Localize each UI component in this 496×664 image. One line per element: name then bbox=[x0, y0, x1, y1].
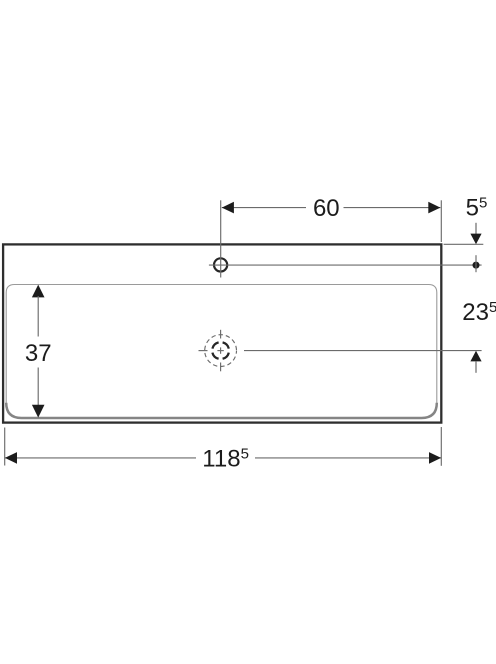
dimension 118.5 right extension line bbox=[440, 427, 442, 466]
dimension 60 line left segment bbox=[222, 207, 306, 209]
dimension 37 line lower segment bbox=[37, 368, 39, 407]
drain ring arc NW bbox=[212, 342, 218, 348]
dimension 118.5 left arrow bbox=[5, 452, 17, 464]
dimension 23.5 arrow shaft bbox=[475, 361, 477, 373]
drain vertical centerline lower dash bbox=[220, 363, 222, 372]
svg-text:1185: 1185 bbox=[202, 446, 249, 473]
basin interior rounded rectangle bbox=[6, 285, 437, 419]
dot vertical tick bbox=[475, 255, 477, 272]
drain center cross vertical bbox=[220, 347, 222, 353]
dimension 118.5 line left segment bbox=[5, 457, 196, 459]
dimension 60 left arrow bbox=[222, 202, 234, 214]
dimension 37 up arrow bbox=[32, 285, 45, 298]
drain ring arc SW bbox=[212, 353, 218, 359]
faucet hole vertical centerline / extension of 60 dim bbox=[220, 200, 222, 277]
dimension 118.5 right arrow bbox=[429, 452, 441, 464]
drain ring arc SE bbox=[223, 353, 229, 359]
dimension 5.5 down arrow bbox=[470, 234, 481, 245]
dimension 60 right extension line above basin corner bbox=[440, 200, 442, 242]
svg-text:37: 37 bbox=[25, 340, 52, 367]
dimension terminator dot on faucet centerline bbox=[473, 262, 480, 269]
svg-text:60: 60 bbox=[313, 195, 340, 222]
drain center cross horizontal bbox=[217, 350, 223, 352]
drain dashed circle bbox=[205, 335, 237, 367]
svg-text:55: 55 bbox=[466, 194, 488, 221]
dimension 118.5 line right segment bbox=[255, 457, 441, 459]
basin interior bottom thick edge bbox=[6, 403, 437, 418]
dimension 5.5 extension line at rim top level bbox=[444, 243, 484, 245]
dimension 37 line upper segment bbox=[37, 296, 39, 337]
drain ring arc NE bbox=[223, 342, 229, 348]
washbasin outer rim rectangle bbox=[3, 244, 441, 422]
dimension 118.5 left extension line bbox=[4, 428, 6, 466]
dimension 60 right arrow bbox=[428, 202, 440, 214]
drain vertical centerline upper dash bbox=[220, 330, 222, 339]
svg-text:235: 235 bbox=[462, 299, 496, 326]
dimension 5.5 arrow shaft bbox=[475, 223, 477, 235]
dimension 37 down arrow bbox=[32, 405, 45, 418]
drain horizontal centerline long line to right edge bbox=[244, 350, 482, 352]
faucet hole circle bbox=[214, 258, 227, 271]
faucet hole horizontal centerline running to right dot bbox=[209, 264, 482, 266]
dimension 60 line right segment bbox=[344, 207, 441, 209]
dimension 23.5 up arrow bbox=[470, 351, 481, 362]
drain horizontal centerline left dash bbox=[199, 350, 208, 352]
